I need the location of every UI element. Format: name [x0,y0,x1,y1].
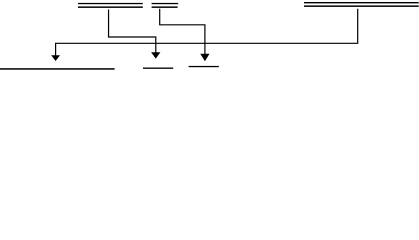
blank line S1 (bottom left) [0,68,115,70]
double underline C (top right, long) [304,2,419,7]
arrowhead left (x=55.6) [51,55,60,61]
arrowhead right (x=204.9) [200,54,209,62]
wire from B: down, right, down to right arrow [160,9,205,55]
wire from C: down, long bus left, down to left arrow [56,9,358,56]
blank line S3 (bottom right) [189,66,219,67]
arrowhead middle (x=155.6) [151,52,160,58]
blank line S2 (bottom middle) [143,68,173,69]
double underline B (top middle, short) [152,3,179,8]
double underline A (top left) [78,3,143,8]
wire from A: down, right, down to middle arrow [109,10,156,54]
